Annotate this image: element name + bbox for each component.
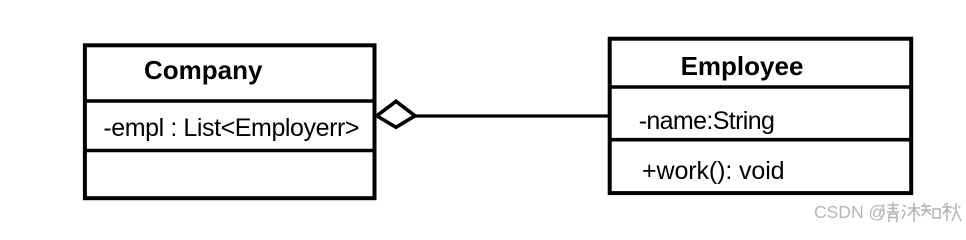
separator Employee title/attributes: [609, 85, 911, 89]
label -name:String: [639, 109, 775, 134]
glyph 知: [921, 203, 940, 218]
separator Employee attributes/methods: [609, 138, 911, 142]
watermark CJK glyphs 清沐知秋: [880, 201, 962, 223]
class box Employee: [610, 39, 912, 193]
glyph 秋: [942, 203, 961, 221]
label -empl : List&lt;Employerr&gt;: [103, 116, 359, 141]
label +work(): void: [642, 159, 785, 184]
label Employee: [681, 53, 804, 79]
glyph 清: [881, 202, 899, 222]
watermark CSDN @: [814, 204, 886, 222]
label Company: [144, 57, 262, 83]
wire association Company-Employee: [414, 114, 609, 117]
glyph 沐: [902, 203, 920, 222]
separator Company attributes/methods: [84, 149, 375, 153]
separator Company title/attributes: [84, 99, 375, 103]
class box Company: [85, 45, 375, 198]
aggregation diamond: [377, 101, 415, 127]
